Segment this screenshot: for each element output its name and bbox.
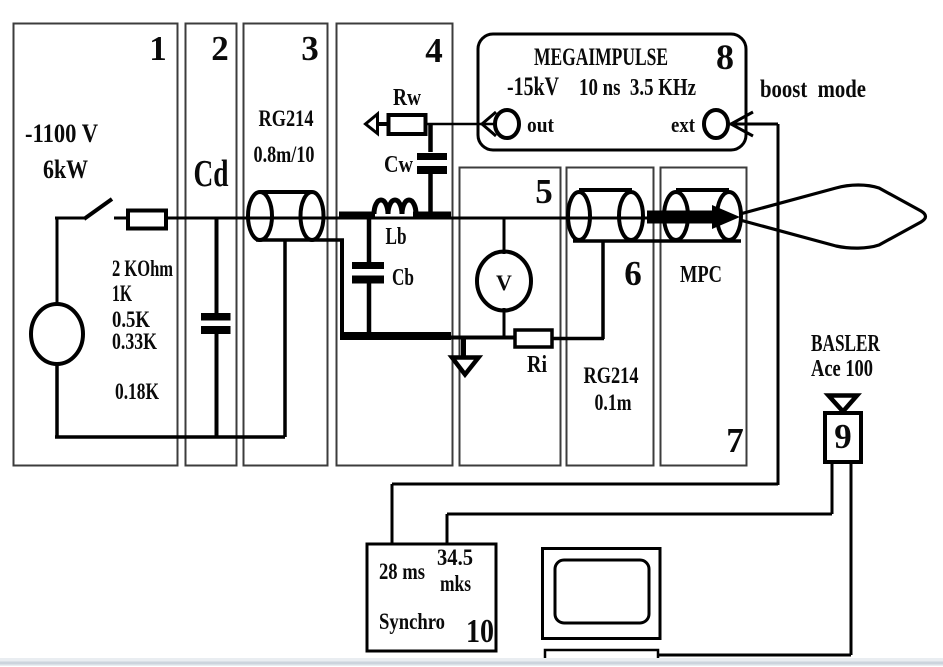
capacitor Cb plates — [352, 262, 384, 269]
svg-text:MEGAIMPULSE: MEGAIMPULSE — [534, 44, 668, 71]
svg-text:Cb: Cb — [392, 265, 414, 291]
switch blade — [84, 199, 112, 219]
camera body box 9 — [825, 413, 861, 462]
wire bottom return — [55, 435, 285, 439]
svg-text:3: 3 — [301, 29, 319, 68]
wire main line thin — [164, 217, 650, 220]
svg-text:10: 10 — [466, 613, 494, 650]
resistor Ri — [515, 330, 552, 347]
coax cable (block 3) left ellipse — [248, 192, 272, 240]
wire ground bus to Ri — [448, 336, 516, 340]
wire down to synchro right input — [446, 514, 449, 545]
capacitor Cd plates — [201, 313, 231, 321]
wire thick segment after Lb — [413, 212, 451, 219]
wire camera to synchro — [447, 513, 832, 516]
coax MPC right ellipse — [717, 192, 741, 240]
coax cable (block 6) body — [579, 188, 632, 192]
wire V bottom stem — [503, 308, 506, 338]
voltmeter V circle — [477, 252, 531, 311]
plasma flame — [740, 185, 926, 248]
resistor Rw — [389, 115, 426, 134]
svg-text:5: 5 — [535, 172, 553, 211]
wire V top stem — [503, 218, 506, 254]
svg-text:V: V — [496, 270, 512, 295]
svg-text:0.8m/10: 0.8m/10 — [254, 142, 315, 167]
svg-text:6kW: 6kW — [43, 155, 88, 184]
svg-text:BASLER: BASLER — [811, 331, 880, 357]
svg-text:0.33K: 0.33K — [112, 329, 157, 354]
capacitor Cb top lead — [367, 217, 372, 262]
wire ext riser down — [777, 124, 780, 485]
block 3 box — [244, 24, 328, 466]
arrow at ext port — [731, 112, 753, 136]
wire source bottom stem — [55, 362, 59, 438]
svg-text:7: 7 — [726, 421, 744, 460]
block 1 power supply box — [14, 24, 178, 466]
coax cable (block 6) right ellipse — [619, 192, 643, 240]
svg-text:0.18K: 0.18K — [115, 379, 159, 404]
wire ext horizontal to synchro — [392, 483, 778, 486]
svg-text:RG214: RG214 — [259, 106, 314, 131]
block 4 box — [337, 24, 453, 466]
wire down to synchro left input — [391, 484, 394, 545]
svg-text:RG214: RG214 — [584, 363, 639, 388]
wire camera right leg — [850, 462, 853, 655]
svg-text:Synchro: Synchro — [379, 609, 445, 634]
ext port circle — [704, 110, 728, 138]
capacitor Cw plates — [417, 153, 447, 160]
wire ext to riser — [729, 123, 778, 126]
svg-text:4: 4 — [425, 31, 443, 70]
switch right contact stub — [114, 217, 127, 220]
svg-text:Rw: Rw — [393, 85, 422, 111]
svg-text:Ace 100: Ace 100 — [811, 356, 873, 382]
capacitor Cw top lead — [428, 124, 433, 152]
wire riser to coax 6 — [601, 242, 605, 339]
resistor Rw arrowhead — [366, 114, 378, 134]
wire shield riser — [283, 240, 287, 437]
svg-text:Cw: Cw — [384, 152, 414, 178]
svg-text:-15kV: -15kV — [507, 72, 559, 101]
voltage source circle (block 1) — [31, 304, 83, 364]
svg-text:boost mode: boost mode — [760, 76, 866, 103]
svg-text:Lb: Lb — [386, 224, 407, 250]
svg-text:out: out — [527, 112, 555, 137]
capacitor Cd bottom lead — [215, 334, 219, 437]
svg-text:1K: 1K — [112, 281, 132, 306]
computer monitor — [543, 549, 661, 639]
svg-text:34.5: 34.5 — [437, 545, 473, 570]
svg-text:6: 6 — [624, 254, 642, 293]
svg-text:-1100 V: -1100 V — [25, 119, 98, 148]
ground stub — [461, 339, 466, 356]
wire thick segment before Lb — [339, 212, 375, 219]
monitor screen — [555, 560, 649, 623]
arrow at out port — [482, 112, 496, 136]
svg-text:0.1m: 0.1m — [595, 390, 632, 415]
camera lens triangle — [829, 396, 858, 412]
svg-text:Cd: Cd — [194, 153, 229, 195]
synchro box 10 — [367, 544, 496, 651]
block 5 box — [460, 168, 561, 466]
block 2 box — [186, 24, 237, 466]
svg-text:2 KOhm: 2 KOhm — [112, 256, 173, 281]
coax cable (block 3) right ellipse — [301, 192, 324, 240]
ground bus thick — [340, 332, 451, 340]
wire Rw to out port — [425, 123, 496, 126]
svg-text:mks: mks — [440, 571, 471, 596]
arrowhead into MPC — [712, 205, 740, 229]
svg-text:Ri: Ri — [527, 352, 547, 378]
svg-text:10 ns 3.5 KHz: 10 ns 3.5 KHz — [579, 75, 696, 101]
block 8 MEGAIMPULSE generator box — [478, 34, 746, 150]
coax MPC (block 7) body — [676, 188, 729, 192]
svg-text:1: 1 — [149, 29, 167, 68]
resistor 2 KOhm (block 1) — [128, 211, 166, 229]
thick arrow conductor into MPC — [647, 211, 714, 224]
out port circle — [495, 110, 519, 138]
wire switch left vertical — [56, 218, 59, 305]
coax cable (block 3) body — [260, 190, 312, 194]
wire camera left leg — [831, 462, 834, 514]
keyboard — [545, 650, 658, 660]
svg-text:28 ms: 28 ms — [379, 559, 425, 584]
block 7 box MPC — [661, 168, 747, 466]
bottom edge light line — [0, 658, 943, 666]
capacitor Cd top lead — [215, 218, 219, 313]
wire shield to ground bus — [340, 240, 344, 334]
ground symbol triangle — [452, 358, 479, 375]
wire switch horizontal stub — [55, 217, 84, 220]
svg-text:MPC: MPC — [680, 262, 722, 288]
capacitor Cb bottom lead — [367, 283, 372, 334]
coax MPC left ellipse — [664, 192, 688, 240]
capacitor Cw bottom lead — [428, 173, 433, 214]
svg-text:2: 2 — [211, 29, 229, 68]
coax cable (block 6) left ellipse — [568, 192, 590, 240]
svg-text:ext: ext — [671, 112, 696, 137]
block 6 box — [567, 168, 654, 466]
inductor Lb — [374, 200, 416, 214]
wire Ri to riser — [551, 337, 604, 341]
svg-text:8: 8 — [716, 37, 734, 77]
svg-text:9: 9 — [834, 417, 852, 456]
wire camera to computer — [658, 654, 851, 657]
